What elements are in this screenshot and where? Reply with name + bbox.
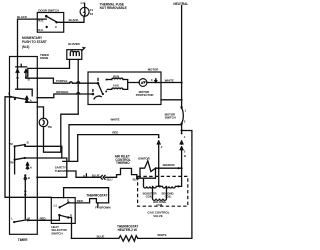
timer contact TM2 — [9, 157, 66, 171]
svg-text:ORANGE: ORANGE — [56, 90, 69, 94]
svg-text:TM: TM — [9, 142, 14, 146]
wire motor C out — [147, 78, 161, 82]
svg-text:THERMO: THERMO — [116, 161, 130, 165]
svg-text:TM: TM — [48, 125, 53, 129]
wire buzzer left lead — [28, 59, 70, 76]
holding coil — [153, 186, 167, 207]
timer motor TM — [37, 107, 78, 152]
svg-text:COIL: COIL — [156, 203, 163, 207]
svg-text:HEATER-2 W.: HEATER-2 W. — [118, 228, 138, 232]
neutral rail lower contacts — [180, 131, 186, 169]
motor run winding — [107, 74, 123, 79]
wire red to heat selector — [28, 215, 60, 220]
wire winding join — [123, 80, 139, 90]
wire white mid — [69, 117, 182, 161]
svg-text:PUSH TO START: PUSH TO START — [22, 40, 47, 44]
svg-text:IGNITOR: IGNITOR — [138, 157, 151, 161]
wire white motor to neutral — [161, 78, 183, 83]
svg-text:L: L — [11, 217, 13, 221]
svg-text:PROTECTOR: PROTECTOR — [136, 93, 155, 97]
push to start switch — [16, 64, 30, 81]
svg-text:BLU: BLU — [107, 178, 113, 182]
booster coil — [143, 179, 160, 199]
svg-text:COIL: COIL — [165, 195, 172, 199]
wire from L contact to left rail — [5, 97, 51, 198]
svg-text:WHITE: WHITE — [157, 233, 166, 237]
svg-text:SWITCH: SWITCH — [51, 231, 62, 235]
svg-text:VALVE: VALVE — [153, 214, 163, 218]
thermostat heater resistor — [117, 225, 167, 242]
motor box — [88, 67, 161, 104]
svg-text:BLACK: BLACK — [69, 18, 80, 22]
svg-text:WHITE: WHITE — [111, 117, 120, 121]
svg-text:E: E — [83, 174, 85, 178]
connector arrows blue — [100, 175, 116, 182]
svg-text:DOOR SWITCH: DOOR SWITCH — [38, 8, 58, 12]
timer contact L-M — [11, 217, 30, 223]
motor switch contacts inside — [92, 78, 108, 99]
svg-text:L1: L1 — [81, 1, 85, 5]
timer contact stack B2 — [24, 174, 30, 218]
buzzer — [67, 42, 85, 59]
wire purple from timer — [26, 77, 98, 83]
svg-text:D: D — [70, 213, 72, 217]
svg-text:MOTOR: MOTOR — [148, 67, 159, 71]
svg-text:TM: TM — [9, 161, 14, 165]
svg-text:TIMER: TIMER — [18, 238, 28, 242]
ignitor — [137, 157, 160, 179]
svg-text:RED: RED — [77, 199, 83, 203]
motor aux winding — [107, 84, 123, 90]
svg-text:BUZZER: BUZZER — [68, 42, 80, 46]
svg-text:N.O.: N.O. — [38, 19, 44, 23]
second coil — [159, 185, 182, 198]
svg-text:KNOB: KNOB — [40, 56, 48, 60]
svg-text:B: B — [184, 154, 186, 158]
svg-text:WHITE: WHITE — [165, 78, 174, 82]
wire buzzer right lead down — [77, 59, 79, 113]
svg-text:B: B — [27, 141, 29, 145]
wire sensor into valve — [159, 168, 182, 186]
label thermal fuse note — [100, 3, 127, 10]
wire heat selector D down — [68, 218, 71, 239]
svg-text:BLUE: BLUE — [92, 173, 100, 177]
wire heat selector top link — [64, 188, 109, 203]
label momentary push to start — [22, 36, 47, 49]
wire neutral rail — [181, 6, 183, 131]
heat selector switch — [51, 198, 75, 236]
door switch S1 — [37, 8, 63, 32]
wire motor box corner to neutral — [161, 99, 183, 101]
svg-text:THERMOSTAT: THERMOSTAT — [86, 193, 107, 197]
motor protector — [136, 79, 155, 97]
svg-text:PURPLE: PURPLE — [56, 79, 68, 83]
svg-text:BLACK: BLACK — [17, 15, 28, 19]
node NEUTRAL — [173, 2, 188, 6]
air inlet control thermo — [115, 155, 139, 182]
safety thermostat — [36, 166, 100, 179]
wire bottom white — [72, 234, 119, 238]
timer L contact and A contact — [8, 78, 37, 103]
wire BLACK left — [17, 15, 46, 69]
wire neutral jog to bottom — [138, 129, 192, 238]
thermostat F — [68, 193, 110, 209]
svg-text:COIL: COIL — [146, 195, 153, 199]
svg-text:NEUTRAL: NEUTRAL — [173, 2, 188, 6]
motor switch on neutral rail — [165, 106, 187, 125]
svg-text:L: L — [8, 92, 10, 96]
svg-text:B: B — [28, 176, 30, 180]
svg-text:RED: RED — [40, 216, 46, 220]
gas control valve dashed box — [138, 176, 188, 218]
svg-text:F: F — [95, 205, 97, 209]
svg-text:BROWN: BROWN — [99, 206, 110, 210]
svg-text:SWITCH: SWITCH — [165, 116, 176, 120]
svg-text:L1: L1 — [54, 204, 58, 208]
svg-text:N.C.: N.C. — [38, 28, 44, 32]
sensor — [159, 163, 183, 169]
svg-text:NOT REMOVABLE: NOT REMOVABLE — [100, 6, 127, 10]
svg-text:AUX.: AUX. — [113, 84, 120, 88]
timer pivot bus — [14, 146, 16, 174]
svg-text:SENSOR: SENSOR — [163, 163, 176, 167]
timer box — [10, 53, 50, 242]
wire BLACK to fuse — [57, 16, 85, 22]
svg-text:BLUE: BLUE — [97, 234, 105, 238]
svg-text:THERMO: THERMO — [55, 169, 68, 173]
timer contact B — [9, 141, 62, 158]
thermal fuse F — [80, 1, 93, 16]
wire orange from timer — [36, 90, 93, 99]
svg-text:(M-6): (M-6) — [22, 45, 29, 49]
wire red mid — [63, 130, 163, 168]
svg-text:RED: RED — [112, 130, 118, 134]
svg-text:F2: F2 — [90, 12, 94, 16]
